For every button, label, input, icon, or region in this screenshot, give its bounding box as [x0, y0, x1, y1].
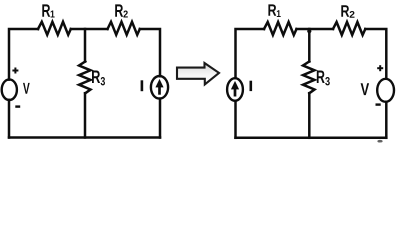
subscript 3 of left R3 — [101, 77, 105, 85]
resistor R3 (right circuit) — [303, 62, 315, 94]
wire: R2 to top-right corner down to current source — [140, 29, 160, 76]
wire: middle branch bottom (R3 to bottom wire) — [308, 93, 311, 138]
label R3 (right circuit) — [317, 71, 325, 83]
label R3 (left circuit) — [92, 71, 100, 83]
current source arrow (left circuit, pointing up) — [156, 80, 163, 95]
wire: middle branch top (node to R3) — [308, 29, 311, 62]
current source arrow (right circuit, pointing up) — [231, 82, 238, 97]
label I (right circuit) — [250, 81, 253, 91]
wire: bottom-left corner up to current source bottom — [234, 101, 237, 138]
wire: current source bottom to bottom-right corner — [159, 99, 162, 138]
current source I (left circuit) — [151, 76, 168, 99]
minus sign of left V source — [15, 105, 20, 107]
subscript 1 of right R1 — [277, 10, 281, 17]
resistor R3 (left circuit) — [79, 62, 91, 94]
label R1 (right circuit) — [268, 4, 276, 15]
wire: bottom-left corner up to V source bottom — [8, 100, 11, 138]
wire: bottom wire of left circuit — [9, 136, 160, 139]
label V (left circuit) — [23, 83, 30, 94]
plus sign of left V source — [12, 68, 18, 74]
label I (left circuit) — [141, 80, 144, 91]
wire: left branch top (V source top to top-left corner to R1) — [9, 29, 38, 80]
subscript 3 of right R3 — [325, 77, 330, 85]
subscript 2 of left R2 — [123, 10, 127, 17]
plus sign of right V source — [377, 65, 383, 71]
wire: R1 to R2 along top (through node at middle branch) — [297, 28, 334, 31]
resistor R1 (right circuit) — [264, 22, 297, 35]
wire: V source bottom to bottom-right corner — [385, 102, 388, 138]
subscript 2 of right R2 — [350, 11, 355, 18]
minus sign of right V source — [376, 103, 381, 105]
resistor R2 (left circuit) — [108, 22, 140, 35]
wire: middle branch bottom (R3 to bottom wire) — [84, 93, 87, 137]
wire: R1 to R2 along top (through node at middle branch) — [71, 28, 108, 31]
wire: left branch top (current source top to top-left corner to R1) — [236, 29, 265, 78]
label R2 (left circuit) — [115, 4, 123, 16]
subscript 1 of left R1 — [51, 10, 55, 17]
voltage source V (right circuit) — [377, 79, 394, 102]
wire: bottom wire of right circuit — [236, 137, 387, 140]
current source I (right circuit) — [227, 78, 243, 101]
equivalence arrow between circuits — [177, 63, 219, 84]
scan smudge below right bottom wire — [377, 140, 382, 143]
resistor R1 (left circuit) — [38, 22, 71, 35]
label V (right circuit) — [361, 83, 369, 95]
label R1 (left circuit) — [42, 4, 50, 16]
wire: R2 to top-right corner down to V source — [365, 29, 386, 79]
resistor R2 (right circuit) — [333, 22, 365, 35]
voltage source V (left circuit) — [2, 79, 17, 100]
wire: middle branch top (node to R3) — [84, 29, 87, 62]
junction dot at top of middle branch (right circuit) — [307, 29, 311, 33]
label R2 (right circuit) — [341, 5, 349, 16]
